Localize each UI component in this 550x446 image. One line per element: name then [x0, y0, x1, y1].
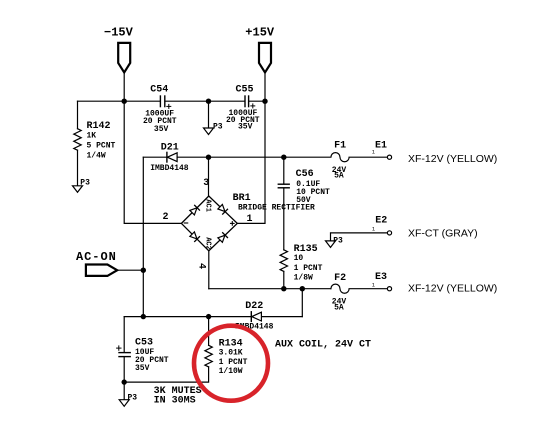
capacitor C53 [119, 353, 130, 357]
wire R135 bottom lead [283, 271, 285, 288]
wire -15V down to bridge [124, 101, 181, 223]
node AC-ON [141, 268, 146, 273]
bridge diode top-left [190, 205, 200, 215]
wire +15V stem [264, 72, 266, 101]
bridge minus mark [184, 222, 187, 224]
wire bridge pin4 stub [208, 251, 210, 289]
ground P3 E2 [326, 241, 336, 248]
svg-text:IMBD4148: IMBD4148 [150, 164, 189, 173]
terminal E1 [387, 155, 391, 159]
wire top rail right segment [249, 100, 265, 102]
svg-text:5 PCNT: 5 PCNT [87, 142, 116, 151]
bridge diode bottom-left [190, 232, 200, 242]
resistor R134 [205, 345, 212, 367]
node bottom rail C53 [122, 379, 127, 384]
node F2 rail R135 [281, 286, 286, 291]
svg-text:1: 1 [247, 214, 253, 225]
node D22 rail R134 [206, 314, 211, 319]
terminal E2 [387, 231, 391, 235]
svg-text:5A: 5A [334, 172, 344, 181]
ground P3 top [204, 128, 214, 135]
wire C53 branch [123, 317, 125, 352]
wire bottom rail [124, 367, 208, 382]
svg-text:P3: P3 [333, 237, 343, 246]
svg-text:P3: P3 [80, 178, 90, 187]
node D22 rail mute [141, 314, 146, 319]
svg-text:1/10W: 1/10W [219, 367, 243, 376]
svg-text:E1: E1 [375, 140, 387, 151]
svg-text:IN 30MS: IN 30MS [154, 395, 196, 406]
wire +15V down to bridge [237, 101, 265, 223]
wire top rail left segment [78, 100, 161, 102]
diode D22 [251, 312, 261, 322]
capacitor C54 [160, 96, 164, 107]
ground P3 bottom [119, 400, 129, 407]
svg-text:AUX COIL, 24V CT: AUX COIL, 24V CT [275, 340, 371, 351]
bridge plus mark [231, 222, 235, 226]
svg-text:XF-CT (GRAY): XF-CT (GRAY) [408, 227, 478, 239]
C53 plus mark [117, 346, 121, 350]
wire mute vertical [142, 157, 144, 316]
node D21 rail C56 [281, 155, 286, 160]
svg-text:C54: C54 [150, 85, 168, 96]
svg-text:50V: 50V [296, 196, 311, 205]
svg-text:F1: F1 [334, 140, 346, 151]
node top rail at +15V [262, 99, 267, 104]
svg-text:1/4W: 1/4W [87, 151, 106, 160]
svg-text:E2: E2 [375, 215, 387, 226]
wire R142 bottom lead [77, 150, 79, 186]
fuse F2 [331, 284, 388, 293]
svg-text:D21: D21 [161, 143, 179, 154]
svg-text:3: 3 [203, 178, 209, 189]
svg-text:1/8W: 1/8W [294, 273, 313, 282]
svg-text:−15V: −15V [104, 25, 134, 39]
svg-text:AC-ON: AC-ON [76, 250, 117, 264]
capacitor C55 [245, 96, 249, 107]
svg-text:F2: F2 [334, 273, 346, 284]
bridge diode top-right [218, 204, 228, 214]
C55 plus mark [251, 104, 255, 108]
svg-text:35V: 35V [238, 123, 253, 132]
connector -15V [118, 43, 130, 73]
svg-text:35V: 35V [154, 125, 169, 134]
svg-text:1 PCNT: 1 PCNT [294, 264, 323, 273]
node D21 rail bridge [206, 155, 211, 160]
svg-text:3.01K: 3.01K [219, 348, 243, 357]
resistor R135 [280, 250, 287, 272]
svg-text:AC2: AC2 [203, 237, 211, 250]
wire -15V stem [123, 72, 125, 101]
svg-text:C53: C53 [135, 337, 153, 348]
wire D21 rail [143, 156, 283, 158]
wire top rail mid segment [165, 100, 245, 102]
wire C56 to R135 [283, 188, 285, 250]
fuse F1 [284, 153, 388, 162]
svg-text:BR1: BR1 [233, 193, 251, 204]
annotation red circle [194, 326, 268, 401]
svg-text:P3: P3 [213, 122, 223, 131]
bridge BR1 diamond [181, 196, 237, 251]
node top rail at -15V [122, 99, 127, 104]
svg-text:R142: R142 [87, 121, 111, 132]
node top rail mid [206, 99, 211, 104]
bridge diode bottom-right [218, 233, 228, 243]
flag AC-ON [86, 265, 117, 276]
svg-text:1 PCNT: 1 PCNT [219, 358, 248, 367]
svg-text:+15V: +15V [245, 25, 275, 39]
node F2 rail D22 riser [300, 286, 305, 291]
capacitor C56 [278, 184, 289, 188]
svg-text:C56: C56 [296, 169, 314, 180]
diode D21 [167, 152, 177, 162]
svg-text:5A: 5A [334, 304, 344, 313]
svg-text:C55: C55 [236, 85, 254, 96]
wire D22 riser [301, 289, 303, 317]
wire mid P3 stub [208, 101, 210, 128]
wire AC-ON lead [117, 269, 143, 271]
wire E2 [331, 233, 388, 241]
svg-text:1K: 1K [87, 132, 97, 141]
wire R142 branch [77, 101, 79, 129]
svg-text:D22: D22 [245, 301, 263, 312]
resistor R142 [74, 129, 81, 151]
wire C56 branch top [283, 157, 285, 184]
svg-text:10: 10 [294, 254, 304, 263]
wire R134 top lead [208, 317, 210, 346]
wire F2 rail [209, 288, 331, 290]
svg-text:4: 4 [196, 263, 207, 269]
wire C53 bottom lead [123, 357, 125, 382]
terminal E3 [387, 287, 391, 291]
wire D22 rail [124, 316, 302, 318]
C54 plus mark [167, 104, 171, 108]
wire bridge pin3 stub [208, 157, 210, 196]
ground P3 R142 [73, 186, 83, 193]
svg-text:AC1: AC1 [203, 199, 211, 212]
svg-text:35V: 35V [135, 364, 150, 373]
svg-text:XF-12V (YELLOW): XF-12V (YELLOW) [408, 153, 497, 165]
svg-text:XF-12V (YELLOW): XF-12V (YELLOW) [408, 283, 497, 295]
connector +15V [259, 43, 271, 73]
svg-text:E3: E3 [375, 272, 387, 283]
svg-text:P3: P3 [128, 394, 138, 403]
svg-text:2: 2 [163, 212, 169, 223]
wire P3 stub bottom [123, 382, 125, 400]
